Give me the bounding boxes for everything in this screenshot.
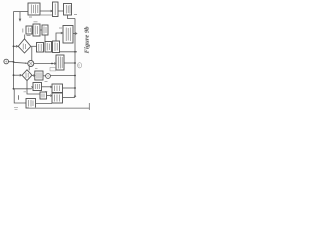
- junction dot bus/PD2: [13, 74, 15, 76]
- block B6: [45, 42, 52, 53]
- junction dot bus/PD1: [13, 45, 15, 47]
- page right edge tick: [88, 103, 90, 110]
- wire B11 to B12 arrow: [47, 95, 51, 97]
- wire Q to R: [40, 29, 42, 31]
- page bottom edge line: [29, 107, 90, 109]
- phase detector PD1 (diamond): [18, 39, 31, 53]
- block S (tall narrow): [53, 41, 60, 53]
- wire B9 to B10 arrow: [42, 86, 51, 88]
- junction dot bus/S1: [13, 61, 15, 63]
- wire B13 output: [36, 103, 53, 105]
- svg-text:Figure 9b: Figure 9b: [84, 26, 90, 54]
- wire into B4 with arrowhead: [56, 33, 62, 41]
- label 56 smudge: [22, 29, 24, 33]
- wire PD1 to B5: [31, 45, 37, 47]
- wire M1 bottom to PD2: [28, 66, 30, 70]
- circle C2: [46, 74, 51, 79]
- junction dot bus y52: [74, 51, 76, 53]
- wire B8 to C2: [43, 75, 46, 77]
- label 94 smudge: [45, 81, 48, 83]
- wire left bus to B9 arrow: [14, 88, 32, 90]
- wire PD2 to B8 arrow: [32, 75, 34, 77]
- small label box 100: [50, 68, 56, 71]
- label smudge below bus wire: [24, 91, 27, 93]
- junction dot bus y63: [74, 62, 76, 64]
- label smudge above B8: [35, 68, 38, 70]
- wire B12 to right bus with up arrow: [63, 97, 76, 99]
- block Q: [33, 24, 40, 36]
- wire C2 to right bus: [50, 75, 75, 77]
- junction dot bus-left y89: [13, 88, 15, 90]
- wire B1 to B2 lower: [40, 14, 52, 16]
- wire S1 to bus to mixer M1: [9, 62, 29, 64]
- stub tick: [18, 95, 20, 100]
- block B10: [52, 84, 63, 93]
- wire tap down to mixer M1: [31, 47, 33, 61]
- wire bus to PD2 arrow: [14, 74, 21, 76]
- block B3: [64, 4, 72, 16]
- wire B2 to B3: [58, 10, 64, 12]
- block B4: [63, 26, 73, 44]
- wire left bus tail down to B13: [14, 89, 26, 103]
- wire R bottom to F top: [44, 35, 46, 42]
- block P: [26, 26, 32, 34]
- junction blob M1 input: [25, 63, 26, 64]
- block B7: [56, 55, 64, 70]
- junction dot bus y75.5: [74, 75, 76, 77]
- wire PD2 bottom down and right to B11: [27, 81, 40, 94]
- block B1: [28, 3, 40, 15]
- block B2 (tall narrow): [53, 2, 59, 17]
- block B5: [37, 43, 44, 53]
- caption tail smudge: [86, 56, 89, 58]
- block B9: [33, 83, 42, 91]
- label 96 smudge: [14, 108, 18, 110]
- wire top-left horizontal to block B1: [14, 11, 29, 13]
- block B13: [26, 99, 36, 109]
- input stub arrow: [19, 12, 21, 20]
- wire B3 down to right bus: [68, 15, 76, 19]
- label smudge left of B4: [59, 27, 62, 29]
- label 58 smudge: [27, 35, 31, 37]
- label 98 smudge oval: [78, 63, 82, 68]
- block B12: [52, 93, 63, 103]
- label 52 smudge: [29, 16, 32, 18]
- summer S1 (circle): [4, 59, 9, 64]
- wire left bus vertical: [13, 12, 15, 90]
- phase detector PD2 (diamond): [22, 70, 32, 81]
- wire M1 to B7 with junction: [34, 63, 55, 65]
- wire right bus vertical: [74, 19, 76, 98]
- junction dot bus y88: [74, 87, 76, 89]
- block B11: [40, 92, 47, 99]
- wire bus to PD1 arrow: [14, 45, 17, 47]
- wire S bottom to right bus: [60, 51, 78, 53]
- label smudge above Q: [34, 21, 38, 23]
- wire B10 to right bus: [63, 87, 76, 89]
- block B8: [35, 71, 43, 80]
- mixer M1 (circle with X): [28, 61, 34, 67]
- wire B7 to right bus: [64, 62, 75, 64]
- wire B4 output arrow: [73, 33, 76, 35]
- wire PD1 top to P: [24, 35, 26, 39]
- block R: [42, 25, 48, 35]
- label 94 smudge below C2: [45, 91, 48, 93]
- label 74 smudge: [74, 14, 77, 16]
- wire B1 to B2 upper with arrowhead: [40, 10, 52, 12]
